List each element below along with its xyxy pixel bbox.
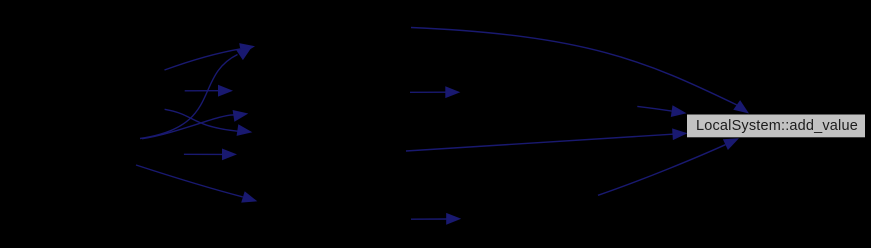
svg-text:LocalSystem::add_value: LocalSystem::add_value	[696, 118, 858, 134]
